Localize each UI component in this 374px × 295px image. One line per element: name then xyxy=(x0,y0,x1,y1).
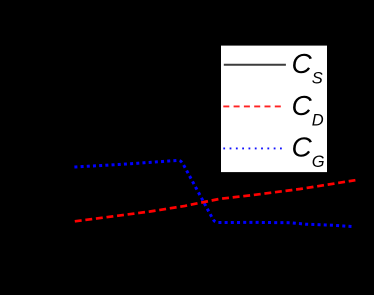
curve C_D (red dashed) xyxy=(75,180,356,221)
legend sample line C_S (black solid) xyxy=(224,64,286,66)
legend box xyxy=(221,45,328,173)
curve C_G (blue dotted) xyxy=(74,160,352,226)
legend sample line C_D (red dashed) xyxy=(223,105,284,107)
legend sample line C_G (blue dotted) xyxy=(223,147,286,149)
